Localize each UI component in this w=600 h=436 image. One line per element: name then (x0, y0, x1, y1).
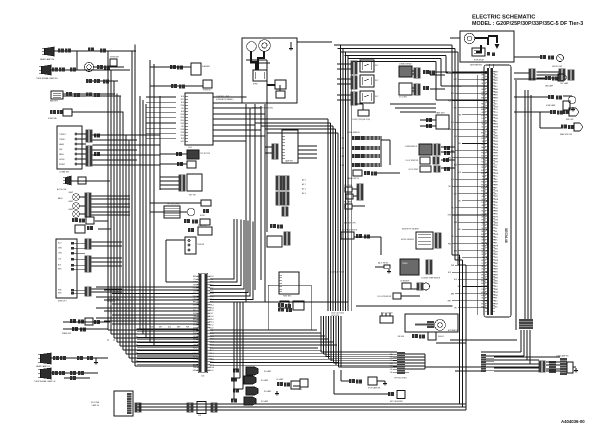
svg-text:7BRN: 7BRN (494, 275, 499, 277)
svg-text:3WHT: 3WHT (494, 185, 499, 187)
svg-text:GRN-8: GRN-8 (481, 173, 486, 175)
svg-text:PUR-3: PUR-3 (481, 289, 486, 291)
svg-text:BRN-2: BRN-2 (481, 234, 486, 236)
svg-text:7RED: 7RED (494, 170, 499, 172)
svg-text:ORG-6: ORG-6 (481, 219, 486, 221)
svg-text:# EASE-OFF VV: # EASE-OFF VV (347, 177, 360, 180)
svg-text:HEAD: HEAD (59, 143, 65, 146)
svg-text:YEL: YEL (448, 186, 451, 188)
svg-text:RLY: RLY (276, 89, 279, 91)
svg-text:YEL-6: YEL-6 (482, 141, 487, 143)
svg-text:WHT-4: WHT-4 (481, 109, 486, 111)
svg-text:RED: RED (181, 123, 185, 125)
svg-text:8GRN: 8GRN (494, 199, 499, 201)
svg-text:PUR: PUR (150, 327, 154, 329)
svg-text:OPTION CONN 1: OPTION CONN 1 (394, 378, 407, 380)
svg-text:4BLK: 4BLK (494, 240, 499, 242)
svg-text:(OPERATOR PANEL): (OPERATOR PANEL) (216, 98, 234, 101)
svg-text:(A) OL PR SW: (A) OL PR SW (378, 262, 389, 265)
svg-text:ORG: ORG (180, 117, 184, 119)
svg-text:RED: RED (451, 93, 455, 95)
svg-text:C423 C424: C423 C424 (331, 315, 339, 317)
svg-text:GRY: GRY (181, 99, 185, 101)
svg-text:RL LAMP: RL LAMP (261, 400, 269, 403)
svg-text:INJ: INJ (341, 148, 344, 150)
svg-text:TANK UNIT: TANK UNIT (436, 112, 445, 115)
svg-text:BLK-6: BLK-6 (482, 298, 487, 300)
svg-text:YEL: YEL (458, 200, 461, 202)
svg-text:GRN-7: GRN-7 (481, 170, 486, 172)
svg-text:0RED: 0RED (494, 280, 499, 282)
svg-text:RL LAMP: RL LAMP (261, 379, 269, 382)
svg-text:WIPER: WIPER (59, 164, 66, 166)
svg-text:ENG COOLANT: ENG COOLANT (381, 312, 393, 315)
svg-text:BLU-4: BLU-4 (481, 266, 486, 268)
svg-text:CB OL TEMP: CB OL TEMP (408, 169, 418, 171)
svg-text:YEL: YEL (451, 236, 454, 238)
svg-text:6WHT: 6WHT (494, 115, 499, 117)
svg-text:TURBO: TURBO (402, 263, 408, 265)
svg-text:0ORG: 0ORG (494, 150, 499, 152)
svg-text:A/C 2: A/C 2 (302, 187, 306, 190)
svg-text:8GRN: 8GRN (494, 147, 499, 149)
svg-text:RED: RED (58, 292, 62, 294)
svg-text:RED-6: RED-6 (481, 272, 486, 274)
svg-text:ORG-7: ORG-7 (481, 144, 486, 146)
svg-text:YEL-0: YEL-0 (482, 176, 487, 178)
svg-text:PNK: PNK (448, 158, 451, 160)
svg-text:PNK-7: PNK-7 (481, 248, 486, 250)
svg-text:WHT-0: WHT-0 (481, 280, 486, 282)
svg-text:FUL TEMP: FUL TEMP (344, 202, 352, 204)
svg-text:BLU: BLU (458, 172, 461, 174)
svg-text:0BLK: 0BLK (494, 306, 499, 308)
svg-text:BLU: BLU (58, 242, 62, 244)
svg-text:RED-2: RED-2 (481, 103, 486, 105)
svg-text:KEY ON BUZZER: KEY ON BUZZER (390, 401, 404, 403)
svg-text:3BLK: 3BLK (494, 132, 499, 134)
svg-text:ACCEL SW: ACCEL SW (57, 188, 67, 191)
svg-text:PUR: PUR (186, 327, 190, 329)
svg-text:6GRN: 6GRN (494, 246, 499, 248)
svg-text:SEAT SW (OPT): SEAT SW (OPT) (344, 222, 356, 225)
svg-text:NO SPEED SENSOR: NO SPEED SENSOR (342, 230, 358, 232)
svg-text:PNK: PNK (58, 289, 62, 291)
svg-text:BACK: BACK (58, 197, 63, 200)
svg-text:PNK: PNK (448, 243, 451, 245)
svg-text:WRK LMP: WRK LMP (566, 119, 573, 121)
svg-text:BLK: BLK (181, 102, 185, 104)
svg-text:LTG: LTG (451, 179, 455, 181)
svg-text:5LTG: 5LTG (494, 164, 499, 166)
svg-text:GRY-4: GRY-4 (481, 240, 486, 242)
svg-text:SECM-48: SECM-48 (504, 228, 508, 243)
svg-text:RED: RED (181, 129, 185, 131)
svg-text:HORN RELAY: HORN RELAY (474, 59, 484, 62)
svg-text:5ORG: 5ORG (494, 190, 499, 192)
svg-text:HORN SW: HORN SW (110, 57, 119, 59)
svg-text:FUSE 30A: FUSE 30A (48, 117, 57, 120)
svg-text:FUSE BOX: FUSE BOX (283, 296, 292, 298)
svg-text:4PUR: 4PUR (494, 292, 499, 294)
svg-text:CB OL PRESS SW: CB OL PRESS SW (377, 296, 391, 298)
svg-text:RR COMB: RR COMB (91, 402, 100, 404)
svg-text:LTG-3: LTG-3 (482, 263, 487, 265)
svg-text:PUR-0: PUR-0 (481, 202, 486, 204)
svg-text:PNK: PNK (458, 115, 461, 117)
svg-text:1GRN: 1GRN (494, 127, 499, 129)
svg-text:DASH HARNESS: DASH HARNESS (470, 64, 482, 67)
svg-text:RED: RED (181, 114, 185, 116)
svg-text:WHT: WHT (458, 286, 461, 288)
svg-text:6RED: 6RED (494, 272, 499, 274)
svg-text:PUR: PUR (454, 222, 458, 224)
svg-text:TURN SIGNAL LAMP LH: TURN SIGNAL LAMP LH (34, 380, 56, 383)
svg-text:0RED: 0RED (494, 254, 499, 256)
svg-text:GRY-6: GRY-6 (481, 246, 486, 248)
svg-text:COUNT (TORQUE CON): COUNT (TORQUE CON) (352, 119, 370, 121)
svg-text:ORG-5: ORG-5 (481, 217, 486, 219)
svg-text:6ORG: 6ORG (494, 141, 499, 143)
svg-text:SPARE RLY: SPARE RLY (198, 224, 208, 227)
svg-text:PNK-1: PNK-1 (481, 153, 486, 155)
svg-text:C/B SGM: C/B SGM (397, 336, 404, 338)
svg-text:0BRN: 0BRN (494, 98, 499, 100)
svg-text:1RED: 1RED (494, 283, 499, 285)
svg-text:3WHT: 3WHT (494, 263, 499, 265)
svg-text:PUR-4: PUR-4 (481, 161, 486, 163)
svg-text:BLK: BLK (58, 264, 62, 266)
svg-text:BRN: BRN (177, 327, 180, 329)
svg-text:HORN: HORN (59, 159, 65, 161)
svg-text:ORG: ORG (448, 215, 452, 217)
svg-text:BATTERY: BATTERY (50, 100, 59, 103)
svg-text:IGN KEY SW: IGN KEY SW (552, 66, 562, 68)
svg-text:PNK: PNK (181, 132, 185, 134)
svg-text:5PUR: 5PUR (494, 138, 499, 140)
svg-text:2ORG: 2ORG (494, 156, 499, 158)
svg-text:C416 C417 C418: C416 C417 C418 (331, 272, 344, 274)
svg-text:GRN: GRN (448, 129, 451, 131)
svg-text:SPEED SENSOR: SPEED SENSOR (347, 132, 360, 134)
svg-text:CN-1: CN-1 (188, 147, 192, 149)
svg-text:RLY: RLY (375, 80, 379, 82)
svg-text:ACCEL SENSOR: ACCEL SENSOR (401, 238, 415, 241)
svg-text:8BLU: 8BLU (494, 121, 499, 123)
svg-text:C43: C43 (390, 363, 393, 365)
svg-text:LAMP: LAMP (68, 200, 73, 203)
svg-text:BRN-7: BRN-7 (481, 275, 486, 277)
svg-text:WHT-4: WHT-4 (481, 188, 486, 190)
svg-text:HEAD LAMP RH: HEAD LAMP RH (40, 58, 55, 61)
svg-text:0YEL: 0YEL (494, 228, 498, 230)
svg-text:5BLK: 5BLK (494, 243, 499, 245)
svg-text:GRY: GRY (454, 193, 457, 195)
svg-text:8PUR: 8PUR (494, 304, 499, 306)
svg-text:OPTION CONN 1: OPTION CONN 1 (167, 204, 180, 206)
svg-text:C05: C05 (198, 415, 201, 417)
svg-text:1BLK: 1BLK (494, 179, 499, 181)
svg-text:WHT: WHT (448, 301, 451, 303)
svg-text:1BLK: 1BLK (494, 74, 499, 76)
svg-text:4GRY: 4GRY (494, 266, 499, 268)
svg-text:ELECTRIC SCHEMATIC: ELECTRIC SCHEMATIC (472, 15, 535, 21)
svg-text:BLK-0: BLK-0 (482, 254, 487, 256)
svg-text:INJ: INJ (341, 156, 344, 158)
svg-text:CAB LAMP: CAB LAMP (545, 85, 553, 88)
svg-text:WHT: WHT (454, 79, 457, 81)
svg-text:YEL: YEL (181, 126, 184, 128)
svg-text:BLK: BLK (454, 279, 457, 281)
svg-text:COMB SENSOR: COMB SENSOR (405, 146, 418, 148)
svg-text:ORG-1: ORG-1 (481, 74, 486, 76)
svg-text:YEL: YEL (451, 208, 454, 210)
svg-text:BLU: BLU (451, 122, 454, 124)
svg-text:TURN L: TURN L (59, 139, 66, 141)
svg-text:ORG: ORG (180, 120, 184, 122)
svg-text:7RED: 7RED (494, 248, 499, 250)
svg-text:7BRN: 7BRN (494, 144, 499, 146)
svg-text:BLU: BLU (454, 136, 457, 138)
svg-text:2PUR: 2PUR (494, 208, 499, 210)
svg-text:BLK: BLK (181, 138, 185, 140)
svg-text:BLU-5: BLU-5 (481, 269, 486, 271)
svg-text:ORG-6: ORG-6 (481, 167, 486, 169)
svg-text:LAMP: LAMP (68, 191, 73, 194)
svg-text:C45: C45 (390, 369, 393, 371)
svg-text:TILT MOTOR: TILT MOTOR (200, 153, 211, 155)
svg-text:GRN: GRN (58, 247, 63, 249)
svg-text:GRN-5: GRN-5 (481, 190, 486, 192)
svg-text:GRY-5: GRY-5 (481, 112, 486, 114)
svg-text:A/C 0: A/C 0 (302, 178, 306, 181)
svg-text:RED-7: RED-7 (481, 222, 486, 224)
svg-text:DC CONV: DC CONV (399, 97, 408, 99)
svg-text:2BLK: 2BLK (494, 103, 499, 105)
svg-text:2RED: 2RED (494, 77, 499, 79)
svg-text:8ORG: 8ORG (494, 225, 499, 227)
svg-text:BLK: BLK (448, 272, 451, 274)
svg-text:COOLANT TEMP SENSOR: COOLANT TEMP SENSOR (421, 277, 441, 280)
svg-text:DIM: DIM (59, 149, 63, 151)
svg-text:PUR-7: PUR-7 (481, 118, 486, 120)
svg-text:2BLU: 2BLU (494, 286, 499, 288)
svg-text:BLU: BLU (181, 96, 185, 98)
svg-text:TURN R: TURN R (59, 134, 66, 136)
svg-text:INJ: INJ (341, 138, 344, 140)
svg-text:6ORG: 6ORG (494, 219, 499, 221)
svg-text:RLY: RLY (375, 65, 379, 67)
svg-text:4BLK: 4BLK (494, 188, 499, 190)
svg-text:WHT: WHT (454, 107, 457, 109)
svg-text:C412 C413: C412 C413 (107, 301, 115, 303)
svg-text:3WHT: 3WHT (494, 289, 499, 291)
svg-text:HEAD LAMP LH: HEAD LAMP LH (36, 365, 50, 368)
svg-text:SPARE SW: SPARE SW (62, 332, 71, 335)
svg-text:O2 SENSOR: O2 SENSOR (400, 281, 410, 283)
svg-text:TURN SIGNAL LAMP RH: TURN SIGNAL LAMP RH (36, 77, 58, 80)
svg-text:LAMP: LAMP (68, 208, 73, 211)
svg-text:LAMP LH: LAMP LH (92, 404, 100, 407)
svg-text:PNK-3: PNK-3 (481, 159, 486, 161)
svg-text:HORN RLY: HORN RLY (203, 90, 212, 92)
svg-text:6BLU: 6BLU (494, 193, 499, 195)
svg-text:2GRN: 2GRN (494, 234, 499, 236)
svg-text:SWITCH 2: SWITCH 2 (58, 301, 67, 303)
svg-text:1LTG: 1LTG (494, 205, 499, 207)
svg-text:5LTG: 5LTG (494, 112, 499, 114)
svg-text:1GRY: 1GRY (494, 257, 499, 259)
svg-text:3PUR: 3PUR (494, 106, 499, 108)
svg-text:1YEL: 1YEL (494, 231, 498, 233)
svg-text:4ORG: 4ORG (494, 161, 499, 163)
svg-text:7BRN: 7BRN (494, 222, 499, 224)
svg-text:YEL: YEL (458, 143, 461, 145)
svg-text:BLK: BLK (181, 111, 185, 113)
svg-text:0PNK: 0PNK (494, 202, 499, 204)
svg-text:BRN: BRN (451, 293, 454, 295)
svg-text:BLU-5: BLU-5 (481, 164, 486, 166)
svg-text:DOME LAMP: DOME LAMP (546, 104, 555, 107)
svg-text:COMB DISPLAY: COMB DISPLAY (399, 63, 412, 66)
svg-text:C06: C06 (201, 376, 204, 378)
svg-text:GRY-2: GRY-2 (481, 130, 486, 132)
svg-text:3BLU: 3BLU (494, 237, 499, 239)
svg-text:GRY-1: GRY-1 (481, 205, 486, 207)
svg-text:SGM-02: SGM-02 (438, 336, 444, 338)
svg-text:5BLU: 5BLU (494, 86, 499, 88)
svg-text:C42: C42 (390, 360, 393, 362)
svg-text:INJ: INJ (341, 165, 344, 167)
svg-text:GRN-2: GRN-2 (481, 156, 486, 158)
svg-text:RLY: RLY (375, 96, 379, 98)
svg-text:7BRN: 7BRN (494, 92, 499, 94)
svg-text:7BLU: 7BLU (494, 301, 499, 303)
svg-text:ORG: ORG (180, 135, 184, 137)
svg-text:0BRN: 0BRN (494, 124, 499, 126)
svg-text:PNK: PNK (181, 105, 185, 107)
svg-text:7GRY: 7GRY (494, 196, 499, 198)
svg-text:LN OL TEMP SW: LN OL TEMP SW (406, 160, 419, 162)
svg-text:RED-1: RED-1 (481, 231, 486, 233)
svg-text:TOW SW: TOW SW (197, 244, 204, 246)
svg-text:C40: C40 (390, 354, 393, 356)
svg-text:4PNK: 4PNK (494, 214, 499, 216)
svg-text:C44: C44 (390, 366, 393, 368)
svg-text:C41: C41 (390, 357, 393, 359)
svg-text:GRY: GRY (181, 141, 185, 143)
svg-text:KEY SW: KEY SW (189, 195, 196, 197)
svg-text:RED: RED (58, 268, 62, 270)
svg-text:0LTG: 0LTG (494, 176, 499, 178)
svg-text:4WHT: 4WHT (494, 135, 499, 137)
svg-text:PASS: PASS (59, 153, 64, 156)
svg-text:COMBI SW: COMBI SW (59, 172, 69, 174)
svg-text:PUR: PUR (448, 100, 452, 102)
svg-text:8GRN: 8GRN (494, 173, 499, 175)
svg-text:0BRN: 0BRN (494, 72, 499, 74)
svg-text:HOUR: HOUR (200, 215, 206, 217)
svg-text:3WHT: 3WHT (494, 159, 499, 161)
svg-text:LIC LAMP: LIC LAMP (276, 378, 283, 381)
svg-text:BLK-0: BLK-0 (482, 124, 487, 126)
svg-text:LTG-4: LTG-4 (482, 214, 487, 216)
svg-text:GRY-7: GRY-7 (481, 196, 486, 198)
svg-text:SEDM STOP SW ASSY: SEDM STOP SW ASSY (402, 228, 420, 231)
svg-text:2RED: 2RED (494, 130, 499, 132)
svg-text:GRY-6: GRY-6 (481, 89, 486, 91)
svg-text:A/C 3: A/C 3 (302, 192, 306, 195)
svg-text:4BLU: 4BLU (494, 83, 499, 85)
svg-text:GRN-5: GRN-5 (481, 295, 486, 297)
svg-text:8RED: 8RED (494, 95, 499, 97)
svg-text:BLU-1: BLU-1 (481, 127, 486, 129)
svg-text:MODEL : G20P/25P/30P/33P/35C-5: MODEL : G20P/25P/30P/33P/35C-5 DF Tier-3 (472, 21, 583, 27)
svg-text:LTG: LTG (58, 258, 62, 260)
svg-text:8BRN: 8BRN (494, 277, 499, 279)
svg-text:GRN-8: GRN-8 (481, 304, 486, 306)
svg-text:REAR WRK LMP: REAR WRK LMP (560, 133, 572, 136)
svg-text:GRN-1: GRN-1 (481, 283, 486, 285)
svg-text:A/C 1: A/C 1 (302, 183, 306, 186)
svg-text:YEL: YEL (181, 108, 184, 110)
svg-text:FUL PUMP: FUL PUMP (344, 185, 352, 187)
svg-text:2GRY: 2GRY (494, 182, 499, 184)
svg-text:PUR: PUR (451, 265, 455, 267)
svg-text:BLK-3: BLK-3 (482, 211, 487, 213)
svg-text:ORG: ORG (58, 252, 63, 254)
svg-text:6YEL: 6YEL (494, 298, 498, 300)
svg-text:5PNK: 5PNK (494, 295, 499, 297)
svg-text:1LTG: 1LTG (494, 101, 499, 103)
svg-text:STOP LAMP SW: STOP LAMP SW (368, 387, 381, 390)
svg-text:8GRY: 8GRY (494, 251, 499, 253)
svg-text:BRN: BRN (454, 250, 457, 252)
svg-text:RED-3: RED-3 (481, 237, 486, 239)
svg-text:RED-8: RED-8 (481, 147, 486, 149)
svg-text:LTG: LTG (458, 86, 462, 88)
svg-text:5ORG: 5ORG (494, 217, 499, 219)
svg-text:RL LAMP: RL LAMP (264, 390, 272, 393)
svg-text:5BRN: 5BRN (494, 269, 499, 271)
svg-text:ALTERNATOR: ALTERNATOR (448, 329, 459, 332)
svg-text:BRN-2: BRN-2 (481, 182, 486, 184)
svg-text:2GRN: 2GRN (494, 260, 499, 262)
svg-text:RED-8: RED-8 (481, 95, 486, 97)
svg-text:YEL: YEL (454, 308, 457, 310)
svg-text:6YEL: 6YEL (494, 167, 498, 169)
svg-text:PNK-3: PNK-3 (481, 80, 486, 82)
svg-text:GRN-5: GRN-5 (481, 138, 486, 140)
svg-text:GRY: GRY (159, 327, 162, 329)
svg-text:BLU-4: BLU-4 (481, 83, 486, 85)
svg-text:OSC LAMP: OSC LAMP (560, 82, 568, 85)
svg-text:1WHT: 1WHT (494, 153, 499, 155)
svg-text:FLASHER: FLASHER (202, 65, 211, 68)
svg-text:4LTG: 4LTG (494, 109, 499, 111)
svg-text:YEL: YEL (458, 229, 461, 231)
svg-text:BLU: BLU (168, 327, 171, 329)
svg-text:BRN-6: BRN-6 (481, 115, 486, 117)
svg-text:C46: C46 (390, 372, 393, 374)
svg-text:6BRN: 6BRN (494, 89, 499, 91)
svg-text:PNK: PNK (448, 72, 451, 74)
svg-text:RES: RES (299, 389, 302, 391)
svg-text:RL LAMP: RL LAMP (264, 370, 272, 373)
svg-text:BRN-3: BRN-3 (481, 132, 486, 134)
svg-text:BLU-8: BLU-8 (481, 251, 486, 253)
svg-text:3BRN: 3BRN (494, 211, 499, 213)
